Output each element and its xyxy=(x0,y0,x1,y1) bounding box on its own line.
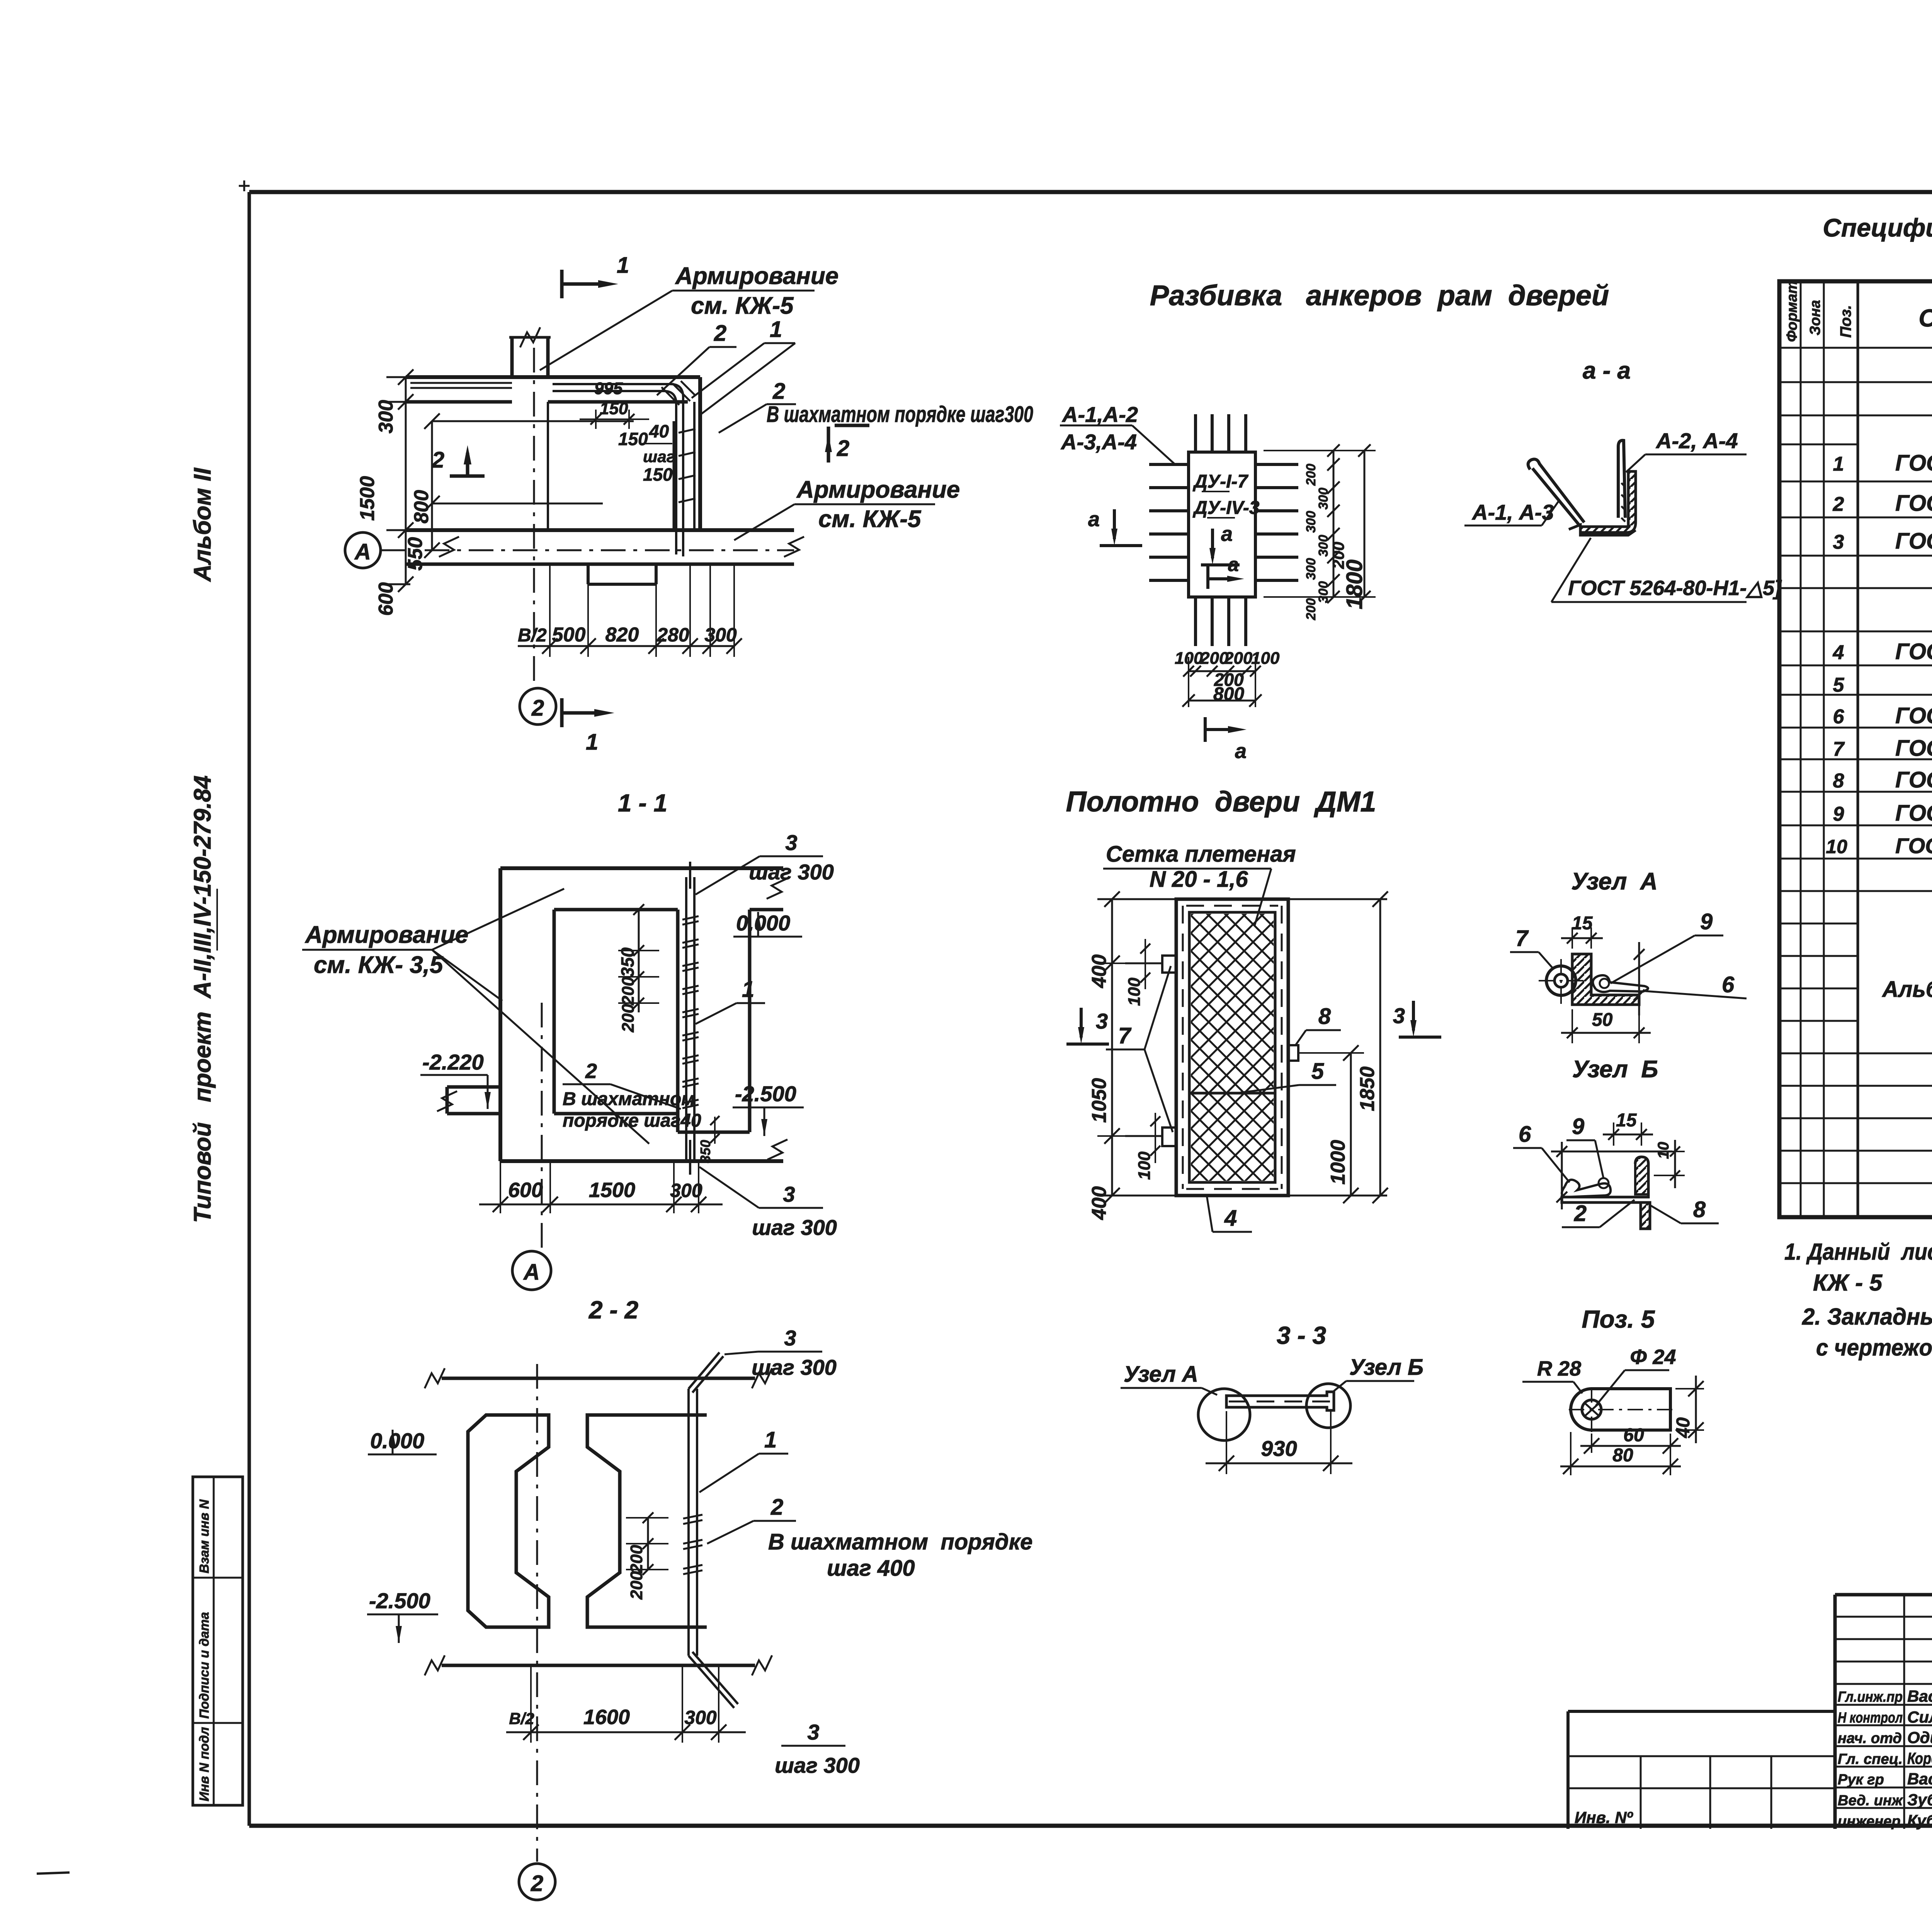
svg-text:7: 7 xyxy=(1833,738,1845,760)
svg-text:1: 1 xyxy=(764,1427,777,1452)
plan view: top wall band xyxy=(406,377,700,402)
item 5 detail: dim 40 xyxy=(1673,1376,1704,1443)
svg-text:Гл. спец.: Гл. спец. xyxy=(1838,1751,1903,1767)
door leaf: label Сетка плетеная N20-1,6 xyxy=(1103,842,1296,925)
door leaf: section marker 3 (left) xyxy=(1066,1008,1109,1044)
section 1-1: title xyxy=(618,789,667,817)
svg-text:Кореневский: Кореневский xyxy=(1907,1749,1932,1767)
svg-text:Узел Б: Узел Б xyxy=(1572,1056,1658,1083)
svg-text:1000: 1000 xyxy=(1327,1140,1349,1185)
svg-text:60: 60 xyxy=(1623,1425,1644,1446)
svg-text:400: 400 xyxy=(1088,954,1111,988)
svg-text:а: а xyxy=(1088,508,1100,531)
section 1-1: label 3 шаг 300 (bottom) xyxy=(699,1167,837,1240)
svg-text:R 28: R 28 xyxy=(1537,1357,1581,1380)
svg-text:2: 2 xyxy=(837,436,849,461)
svg-text:ГОСТ 8478-81: ГОСТ 8478-81 xyxy=(1895,451,1932,476)
node A: pipe item 7 xyxy=(1539,959,1583,1004)
section 2-2: rebar joint with stirrups xyxy=(683,1352,738,1708)
section 2-2: label 3 шаг 300 (bottom) xyxy=(775,1720,860,1777)
section 1-1: label 1 with leader xyxy=(696,977,765,1024)
svg-text:1 - 1: 1 - 1 xyxy=(618,789,667,817)
svg-text:150: 150 xyxy=(618,429,648,449)
svg-text:550: 550 xyxy=(404,537,427,571)
svg-text:100: 100 xyxy=(1135,1151,1154,1180)
specification table: row 3 xyxy=(1833,528,1932,555)
svg-text:0.000: 0.000 xyxy=(736,911,790,935)
svg-text:а: а xyxy=(1228,554,1239,575)
section 2-2: bottom dims 1600/300 xyxy=(506,1665,746,1743)
svg-text:В шахматном порядке: В шахматном порядке xyxy=(768,1529,1032,1554)
stray mark bottom left xyxy=(37,1872,70,1874)
svg-text:820: 820 xyxy=(605,624,639,646)
svg-text:3: 3 xyxy=(1833,531,1844,553)
svg-text:нач. отд: нач. отд xyxy=(1838,1730,1902,1747)
section 3-3: label Узел А xyxy=(1121,1362,1217,1395)
door leaf: label 4 xyxy=(1207,1196,1252,1232)
section 1-1: axis А xyxy=(512,1003,551,1290)
anchor layout: section marker а (left) xyxy=(1088,508,1142,546)
svg-text:6: 6 xyxy=(1519,1122,1531,1147)
specification table: row 2 xyxy=(1833,491,1932,517)
svg-text:ГОСТ 5781-82: ГОСТ 5781-82 xyxy=(1895,491,1932,516)
svg-text:А-3,А-4: А-3,А-4 xyxy=(1060,430,1137,454)
plan view: axis line 2 (vertical) xyxy=(520,348,556,724)
svg-text:5: 5 xyxy=(1311,1059,1324,1084)
section 1-1: top slab xyxy=(500,868,787,910)
svg-text:800: 800 xyxy=(410,490,433,524)
section a-a: label А-1, А-3 xyxy=(1464,500,1559,526)
svg-text:4: 4 xyxy=(1224,1206,1237,1231)
sheet frame border xyxy=(239,180,1932,1851)
item 5 detail: title xyxy=(1582,1305,1655,1333)
svg-text:А: А xyxy=(523,1260,540,1285)
svg-text:В/2: В/2 xyxy=(518,625,547,646)
svg-text:В шахматном порядке шаг300: В шахматном порядке шаг300 xyxy=(767,402,1033,427)
svg-text:1: 1 xyxy=(1833,453,1844,475)
svg-text:300: 300 xyxy=(1304,511,1318,533)
svg-text:200: 200 xyxy=(1224,649,1253,668)
svg-text:ГОСТ 8509-72 *: ГОСТ 8509-72 * xyxy=(1895,639,1932,664)
svg-text:2: 2 xyxy=(772,379,785,404)
plan view: labels 2 and 1 with leaders xyxy=(657,317,795,415)
left margin stamp strip xyxy=(193,1477,243,1805)
svg-text:с чертежом на листах КЖ - 1: с чертежом на листах КЖ - 12 , КЖ - 13, … xyxy=(1816,1335,1932,1361)
svg-text:280: 280 xyxy=(656,624,689,646)
svg-text:-2.500: -2.500 xyxy=(735,1082,796,1106)
svg-text:2: 2 xyxy=(1833,493,1844,515)
svg-text:Альбом III: Альбом III xyxy=(1881,977,1932,1002)
svg-text:Узел Б: Узел Б xyxy=(1349,1355,1423,1380)
svg-text:300: 300 xyxy=(1304,558,1318,580)
svg-text:3: 3 xyxy=(784,1326,796,1350)
svg-text:3: 3 xyxy=(783,1182,795,1206)
section a-a: label А-2, А-4 xyxy=(1626,429,1747,472)
left margin caption: Альбом II xyxy=(189,467,216,582)
svg-text:Н контрол: Н контрол xyxy=(1838,1710,1903,1726)
svg-text:0.000: 0.000 xyxy=(370,1429,424,1453)
svg-text:А-2, А-4: А-2, А-4 xyxy=(1655,429,1738,453)
svg-text:шаг 300: шаг 300 xyxy=(752,1215,837,1240)
anchor layout: section marker а (inside bottom) xyxy=(1208,554,1244,589)
svg-text:Гл.инж.пр: Гл.инж.пр xyxy=(1838,1689,1903,1705)
svg-text:10: 10 xyxy=(1826,836,1847,857)
svg-text:15: 15 xyxy=(1572,913,1593,934)
svg-text:1850: 1850 xyxy=(1356,1066,1379,1111)
section 2-2: top slab line xyxy=(425,1368,772,1388)
svg-text:8: 8 xyxy=(1693,1197,1706,1222)
door leaf: label 5 xyxy=(1236,1059,1336,1093)
svg-text:8: 8 xyxy=(1833,770,1844,792)
section 2-2: title xyxy=(588,1296,638,1324)
node B: dim 10 right xyxy=(1654,1140,1685,1188)
svg-text:Армирование: Армирование xyxy=(796,476,960,503)
svg-text:см. КЖ- 3,5: см. КЖ- 3,5 xyxy=(314,952,444,978)
node B: top line and angle xyxy=(1551,1151,1672,1229)
svg-text:Рук гр: Рук гр xyxy=(1838,1772,1884,1788)
svg-text:80: 80 xyxy=(1612,1445,1633,1466)
section 1-1: rebar joint (items 1,2,3) xyxy=(682,862,699,1175)
node A: dim 15 xyxy=(1561,913,1603,949)
plan view: right wall band corner xyxy=(674,377,700,530)
svg-text:15: 15 xyxy=(1616,1110,1637,1131)
svg-text:6: 6 xyxy=(1722,972,1735,997)
anchor layout: right dimension chains xyxy=(1264,444,1376,621)
node B: mesh latch item 9 xyxy=(1562,1178,1611,1197)
svg-text:5: 5 xyxy=(1833,674,1845,696)
section 2-2: left I-profile block xyxy=(468,1415,549,1627)
svg-text:N 20 - 1,6: N 20 - 1,6 xyxy=(1150,867,1248,892)
item 5 detail: plate with hole xyxy=(1569,1387,1673,1432)
plan view: footing slab xyxy=(406,402,804,584)
svg-text:10: 10 xyxy=(1655,1142,1672,1159)
svg-text:100: 100 xyxy=(1175,649,1203,668)
svg-text:шаг 300: шаг 300 xyxy=(749,860,834,884)
section 2-2: right I-profile block xyxy=(587,1415,707,1627)
specification table: row 1 xyxy=(1833,418,1932,484)
anchor layout: anchors left xyxy=(1149,464,1189,580)
svg-text:шаг 400: шаг 400 xyxy=(827,1556,915,1581)
svg-text:150: 150 xyxy=(643,464,673,485)
svg-text:50: 50 xyxy=(1592,1010,1613,1030)
node B detail: title xyxy=(1572,1056,1658,1083)
plan view: axis line А xyxy=(345,532,794,568)
section 1-1: level mark 0.000 xyxy=(733,911,802,937)
svg-text:3: 3 xyxy=(807,1720,819,1744)
svg-text:Подписи и дата: Подписи и дата xyxy=(197,1612,212,1719)
door leaf: hinge offset dims 100 xyxy=(1125,939,1160,1180)
svg-text:400: 400 xyxy=(1088,1186,1111,1220)
door leaf: frame xyxy=(1176,899,1288,1196)
title block: left auxiliary table xyxy=(1568,1711,1835,1829)
section a-a: angle profile hatched xyxy=(1569,471,1636,535)
specification table: grid xyxy=(1779,281,1932,1217)
svg-text:100: 100 xyxy=(1251,649,1280,668)
svg-text:порядке шаг40: порядке шаг40 xyxy=(563,1111,701,1131)
svg-text:350: 350 xyxy=(697,1140,713,1163)
svg-text:Инв N подл: Инв N подл xyxy=(197,1727,212,1801)
svg-text:350: 350 xyxy=(617,947,638,977)
svg-text:Васильев: Васильев xyxy=(1907,1687,1932,1705)
svg-text:Разбивка анкеров рам двере: Разбивка анкеров рам дверей xyxy=(1150,279,1609,311)
section 3-3: node circles xyxy=(1198,1384,1350,1440)
door leaf: right dimension chains 1850/1000 xyxy=(1298,891,1388,1203)
svg-text:Типовой проект А-II,III,IV-: Типовой проект А-II,III,IV-150-279.84 xyxy=(189,776,216,1223)
svg-text:В/2: В/2 xyxy=(509,1709,534,1728)
node A: label 6 xyxy=(1645,972,1747,998)
anchor layout: label А-1,А-2 / А-3,А-4 xyxy=(1060,402,1174,464)
plan view: section marker 2 (left) xyxy=(432,445,485,476)
section 1-1: walls xyxy=(500,868,787,1161)
svg-text:-2.500: -2.500 xyxy=(369,1588,430,1613)
svg-text:2 - 2: 2 - 2 xyxy=(588,1296,638,1324)
plan view: label Армирование см. КЖ-5 (right lower) xyxy=(734,476,960,540)
svg-text:300: 300 xyxy=(684,1707,717,1728)
svg-text:3 - 3: 3 - 3 xyxy=(1277,1321,1326,1349)
section 2-2: label 1 xyxy=(699,1427,788,1492)
svg-text:Узел А: Узел А xyxy=(1124,1362,1198,1387)
plan view: left dimension chain xyxy=(356,369,413,616)
node A: dim 50 xyxy=(1561,1009,1651,1043)
specification table: row 8 xyxy=(1833,767,1932,794)
plan view: section marker 1 (bottom) xyxy=(562,698,614,755)
svg-text:7: 7 xyxy=(1515,926,1529,951)
svg-text:1: 1 xyxy=(617,253,629,278)
plan view: label 2 В шахматном порядке шаг300 xyxy=(719,379,1033,433)
svg-text:930: 930 xyxy=(1261,1436,1297,1461)
section 2-2: label 3 шаг 300 (top) xyxy=(724,1326,837,1379)
svg-text:1600: 1600 xyxy=(583,1706,630,1729)
section 1-1: bottom dimension chain 600/1500/300 xyxy=(479,1161,723,1213)
svg-text:1500: 1500 xyxy=(356,476,379,521)
svg-text:1. Данный лист см. совместно: 1. Данный лист см. совместно с листами К… xyxy=(1784,1239,1932,1265)
svg-text:9: 9 xyxy=(1700,909,1713,934)
svg-text:2: 2 xyxy=(531,1871,543,1896)
door leaf: mesh infill xyxy=(1191,914,1274,1181)
anchor layout: anchors above xyxy=(1196,414,1246,452)
svg-text:-2.220: -2.220 xyxy=(422,1050,484,1074)
svg-text:Поз.: Поз. xyxy=(1837,305,1854,338)
notes under table xyxy=(1784,1239,1932,1361)
svg-text:КЖ - 5: КЖ - 5 xyxy=(1813,1270,1883,1296)
svg-text:шаг 300: шаг 300 xyxy=(775,1753,860,1777)
anchor layout: title xyxy=(1150,279,1609,311)
plan view: rebar mesh with bent corner (item 1) xyxy=(553,381,696,556)
svg-text:ДУ-IV-3: ДУ-IV-3 xyxy=(1192,498,1260,518)
node B: dim 15 xyxy=(1603,1110,1653,1146)
svg-text:см. КЖ-5: см. КЖ-5 xyxy=(818,506,922,532)
svg-text:2. Закладные детали установи: 2. Закладные детали установить в соответ… xyxy=(1802,1304,1932,1330)
node A: mesh latch item 9 xyxy=(1593,975,1648,992)
svg-text:300: 300 xyxy=(670,1180,702,1201)
left margin caption: Типовой проект xyxy=(189,776,217,1223)
item 5 detail: label Ф24 xyxy=(1596,1345,1676,1406)
node B: label 6 xyxy=(1513,1122,1570,1182)
anchor layout: bottom dimension chains xyxy=(1175,649,1280,707)
plan view: section marker 2 (right) xyxy=(825,425,869,463)
door leaf: middle rail xyxy=(1189,1092,1275,1095)
svg-text:Одинаков: Одинаков xyxy=(1907,1728,1932,1747)
svg-text:1: 1 xyxy=(770,317,782,342)
svg-text:4: 4 xyxy=(1833,641,1844,664)
plan view: bottom dimension chain xyxy=(518,564,742,657)
specification table: row 7 xyxy=(1833,736,1932,762)
svg-text:Зубова: Зубова xyxy=(1907,1791,1932,1809)
svg-text:Инв. Nº: Инв. Nº xyxy=(1575,1808,1633,1827)
door leaf: label 7 xyxy=(1106,966,1173,1132)
section a-a: label ГОСТ 5264-80-Н1-д5 xyxy=(1551,538,1782,602)
svg-text:ГОСТ 5264-80-Н1-△5]: ГОСТ 5264-80-Н1-△5] xyxy=(1568,577,1782,600)
svg-text:ГОСТ 5781-82: ГОСТ 5781-82 xyxy=(1895,833,1932,858)
svg-text:300: 300 xyxy=(1316,488,1331,510)
section 3-3: label Узел Б xyxy=(1334,1355,1423,1391)
door leaf: title Полотно двери ДМ1 xyxy=(1066,786,1376,818)
svg-text:40: 40 xyxy=(649,421,669,441)
specification table: row 6 xyxy=(1833,703,1932,730)
svg-text:ГОСТ 5781 - 82: ГОСТ 5781 - 82 xyxy=(1895,529,1932,554)
section a-a: anchor rod А-2,А-4 xyxy=(1618,440,1625,518)
anchor layout: section marker а (bottom) xyxy=(1205,717,1247,763)
section 1-1: dim 350 right small xyxy=(697,1116,719,1163)
svg-text:1800: 1800 xyxy=(1342,560,1367,609)
section 2-2: level 0.000 xyxy=(368,1429,437,1454)
section 1-1: level mark -2.500 xyxy=(733,1082,804,1136)
svg-text:200: 200 xyxy=(627,1544,646,1573)
svg-text:Кубышкина: Кубышкина xyxy=(1907,1811,1932,1830)
svg-text:200: 200 xyxy=(619,976,638,1005)
svg-text:2: 2 xyxy=(531,696,544,721)
svg-text:Обозначение: Обозначение xyxy=(1918,304,1932,332)
svg-text:Спецификация элементов к схем: Спецификация элементов к схемам располож… xyxy=(1823,213,1932,242)
svg-text:500: 500 xyxy=(552,624,586,646)
node B: label 8 xyxy=(1651,1197,1719,1223)
svg-text:40: 40 xyxy=(1673,1417,1694,1439)
node A: label 7 xyxy=(1510,926,1553,968)
specification table: row 4 xyxy=(1833,639,1932,666)
node A: angle profile xyxy=(1572,954,1639,1005)
svg-text:шаг 300: шаг 300 xyxy=(752,1355,837,1379)
node A detail: title xyxy=(1571,868,1657,895)
svg-text:200: 200 xyxy=(1304,598,1318,621)
specification table: row 9 xyxy=(1833,801,1932,827)
door leaf: hinges (item 7) xyxy=(1125,956,1176,1146)
svg-text:2: 2 xyxy=(432,447,444,473)
node B: label 2 xyxy=(1562,1200,1634,1227)
door leaf: latch (item 8) xyxy=(1288,1004,1341,1061)
svg-text:Взам инв N: Взам инв N xyxy=(197,1499,212,1573)
section 3-3: dim 930 xyxy=(1206,1410,1352,1474)
svg-text:300: 300 xyxy=(704,624,737,646)
node A: right vertical dim line xyxy=(1634,942,1645,1015)
svg-text:9: 9 xyxy=(1572,1114,1584,1139)
svg-text:инженер: инженер xyxy=(1838,1813,1901,1830)
svg-text:2: 2 xyxy=(770,1495,783,1520)
svg-text:а: а xyxy=(1221,522,1233,546)
specification table: header texts xyxy=(1784,281,1932,342)
svg-text:995: 995 xyxy=(594,379,623,398)
svg-text:А-1,А-2: А-1,А-2 xyxy=(1061,402,1138,427)
svg-text:ДУ-I-7: ДУ-I-7 xyxy=(1192,471,1248,492)
section 1-1: label 3 шаг 300 (top) xyxy=(696,830,834,895)
svg-text:Зона: Зона xyxy=(1807,300,1823,335)
svg-text:Поз. 5: Поз. 5 xyxy=(1582,1305,1655,1333)
specification table: Альбом III block texts xyxy=(1881,899,1932,1019)
svg-text:см. КЖ-5: см. КЖ-5 xyxy=(691,293,794,319)
specification table: row 5 xyxy=(1833,673,1932,697)
svg-text:Сетка плетеная: Сетка плетеная xyxy=(1106,842,1296,867)
svg-text:100: 100 xyxy=(1125,977,1144,1006)
anchor layout: anchors right xyxy=(1255,464,1298,580)
door leaf: left dimension chain xyxy=(1088,891,1387,1220)
svg-text:Полотно двери ДМ1: Полотно двери ДМ1 xyxy=(1066,786,1376,818)
svg-text:А: А xyxy=(354,539,371,565)
svg-text:2: 2 xyxy=(585,1060,597,1083)
svg-text:шаг: шаг xyxy=(643,447,675,466)
svg-text:1: 1 xyxy=(586,730,598,755)
svg-text:Φ 24: Φ 24 xyxy=(1630,1345,1676,1369)
node B: label 9 xyxy=(1566,1114,1604,1179)
svg-text:3: 3 xyxy=(785,830,797,855)
anchor layout: section marker а (inside top) xyxy=(1201,522,1240,565)
plan view: inner dimension chain 800/550 xyxy=(404,413,634,571)
svg-text:Узел А: Узел А xyxy=(1571,868,1657,895)
svg-text:ГОСТ 5781 - 82: ГОСТ 5781 - 82 xyxy=(1895,801,1932,826)
svg-text:9: 9 xyxy=(1833,803,1844,825)
specification table: heading xyxy=(1823,213,1932,276)
svg-text:150: 150 xyxy=(600,399,628,418)
svg-text:600: 600 xyxy=(375,582,397,616)
section 1-1: label Армирование см. КЖ-3,5 xyxy=(302,889,649,1144)
svg-text:Армирование: Армирование xyxy=(675,263,838,289)
svg-text:Силаева: Силаева xyxy=(1907,1708,1932,1726)
svg-text:А-1, А-3: А-1, А-3 xyxy=(1471,500,1554,524)
svg-text:8: 8 xyxy=(1318,1004,1331,1029)
svg-text:ГОСТ 5336 - 80: ГОСТ 5336 - 80 xyxy=(1895,703,1932,728)
svg-text:600: 600 xyxy=(508,1179,543,1202)
svg-text:300: 300 xyxy=(375,400,397,434)
section 3-3: bar xyxy=(1226,1392,1334,1410)
svg-text:2: 2 xyxy=(714,321,726,346)
plan view: pier above wall xyxy=(509,327,551,377)
svg-text:Васильева: Васильева xyxy=(1907,1770,1932,1788)
section 1-1: left ledge -2.220 xyxy=(420,1050,500,1114)
section 3-3: title xyxy=(1277,1321,1326,1349)
title block: outer grid xyxy=(1835,1595,1932,1829)
plan view: label Армирование см. КЖ-5 (top) xyxy=(540,263,838,370)
anchor layout: door frame rectangle xyxy=(1189,452,1260,597)
section 1-1: label 2 В шахматном порядке шаг40 xyxy=(563,1060,701,1131)
section a-a: anchor rod А-1,А-3 xyxy=(1528,459,1584,526)
svg-text:Альбом II: Альбом II xyxy=(189,467,216,582)
svg-text:3: 3 xyxy=(1393,1003,1405,1028)
svg-text:200: 200 xyxy=(627,1571,646,1600)
svg-text:а - а: а - а xyxy=(1583,357,1631,384)
svg-text:3: 3 xyxy=(1096,1009,1108,1033)
svg-text:6: 6 xyxy=(1833,706,1845,728)
door leaf: section marker 3 (right) xyxy=(1393,1001,1441,1037)
svg-text:1: 1 xyxy=(742,977,754,1002)
svg-text:ГОСТ 3262 - 75 *: ГОСТ 3262 - 75 * xyxy=(1895,736,1932,761)
svg-text:1050: 1050 xyxy=(1088,1078,1111,1123)
section 2-2: bottom slab line xyxy=(425,1655,772,1675)
svg-text:ГОСТ 103 - 76: ГОСТ 103 - 76 xyxy=(1895,767,1932,793)
plan view: section marker 1 (top) xyxy=(562,253,629,298)
plan view: dims 150/150/40 шаг 150 at wall corner xyxy=(580,399,675,485)
section 2-2: axis 2 xyxy=(519,1364,555,1900)
section 2-2: label 2 В шахматном порядке шаг 400 xyxy=(707,1495,1032,1581)
svg-text:Формат: Формат xyxy=(1784,281,1800,342)
node B: left dim line xyxy=(1556,1142,1567,1209)
